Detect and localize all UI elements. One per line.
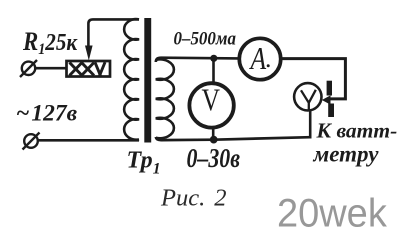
svg-text:V: V [202, 83, 221, 118]
svg-text:R125к: R125к [22, 28, 78, 59]
wire voltmeter bottom stem [212, 126, 215, 140]
wire terminal to rheostat [34, 67, 67, 70]
svg-text:Рис.2: Рис.2 [160, 185, 226, 212]
resistor R1 box (rheostat) [67, 61, 111, 77]
transformer Tr1 secondary winding [156, 59, 174, 138]
svg-text:метру: метру [313, 142, 380, 167]
wire junction to voltmeter [212, 58, 215, 84]
meter Y circle [294, 83, 321, 110]
bottom-left wire to primary [37, 139, 139, 142]
label R1 25k [22, 28, 78, 59]
svg-text:0–500ма: 0–500ма [174, 27, 236, 48]
bottom wire secondary to Y [156, 137, 310, 140]
plug arrowhead [322, 95, 331, 104]
Y symbol [301, 90, 316, 111]
wire Y meter to bottom wire [309, 110, 312, 139]
ammeter A1 circle [239, 38, 280, 79]
wiper arrowhead [85, 46, 93, 61]
svg-text:А: А [249, 41, 267, 76]
transformer Tr1 primary winding [124, 19, 139, 140]
svg-text:К ватт-: К ватт- [316, 119, 398, 143]
wiper arrow wire (top left corner) [88, 19, 139, 46]
svg-text:20wek: 20wek [277, 192, 387, 236]
terminal X2 (circle with slash) [23, 133, 40, 150]
terminal X1 (circle with slash) [20, 60, 37, 77]
svg-text:0–30в: 0–30в [187, 144, 240, 174]
secondary top wire to ammeter [156, 58, 238, 62]
node junction dot bottom [210, 136, 218, 144]
plug lower bar [328, 104, 334, 118]
plug upper bar [327, 81, 332, 96]
node junction dot top [210, 55, 217, 62]
transformer core [144, 18, 151, 143]
XXV marks inside rheostat [71, 64, 105, 75]
svg-text:~127в: ~127в [16, 101, 78, 127]
voltmeter V1 circle [189, 83, 233, 127]
wire ammeter to right corner and down [281, 59, 345, 99]
